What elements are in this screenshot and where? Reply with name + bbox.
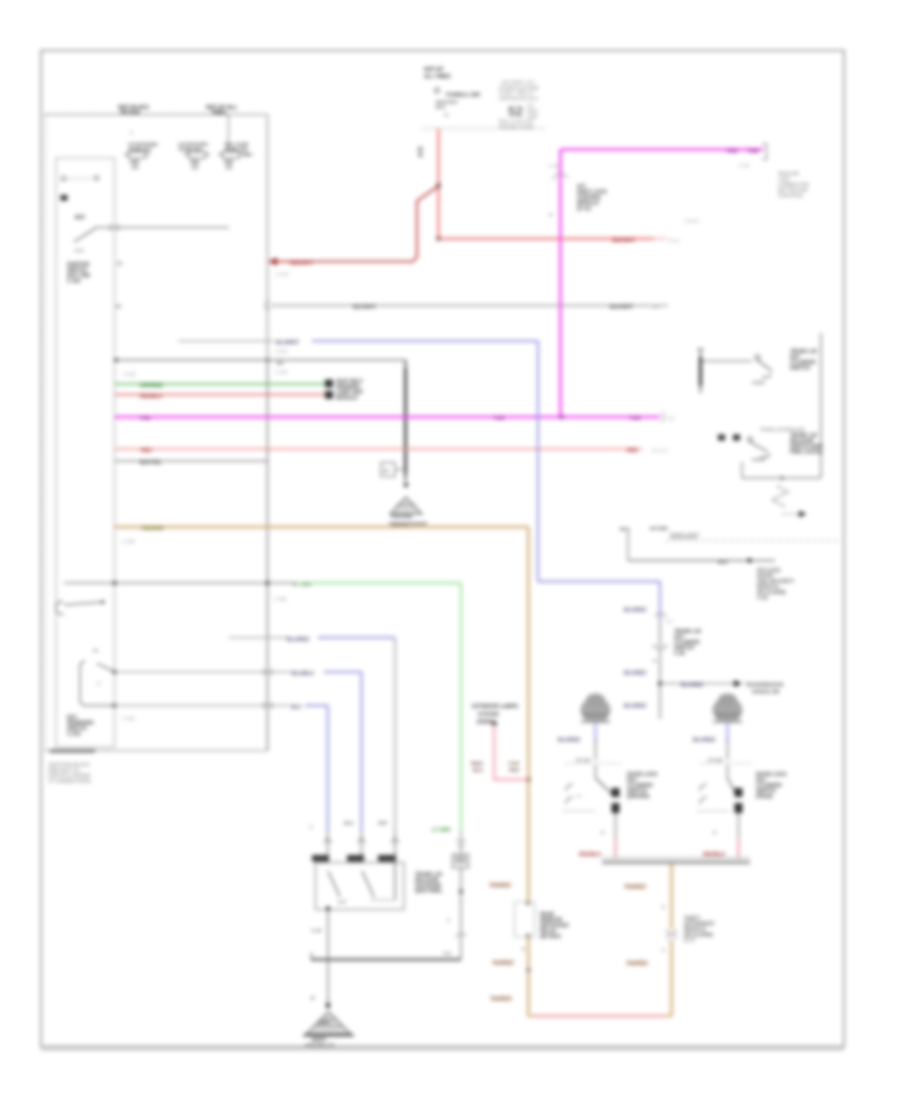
wire gray drop blue1: [394, 831, 396, 856]
svg-text:2: 2: [522, 947, 525, 952]
svg-text:BLK/YEL: BLK/YEL: [140, 460, 161, 466]
wire blue stub B: [726, 722, 728, 742]
wire tan2 vertical: [670, 864, 673, 1016]
svg-text:BLU: BLU: [291, 705, 302, 711]
dashed connector line B: [700, 763, 752, 765]
switch arm IG1: [74, 229, 95, 243]
svg-text:BLK/WHT: BLK/WHT: [610, 305, 633, 311]
svg-text:CONNECTOR: CONNECTOR: [778, 182, 809, 188]
wire ignition output: [94, 227, 229, 229]
switch2 pin squares: [718, 435, 725, 441]
svg-text:C-90: C-90: [757, 596, 768, 602]
svg-text:G303: G303: [318, 1020, 330, 1025]
wire red vertical feed: [437, 129, 439, 239]
junction block dashed left edge: [45, 115, 47, 751]
svg-text:OR RUN: OR RUN: [120, 110, 140, 116]
svg-text:TOW PKG): TOW PKG): [778, 193, 803, 199]
wire accessory feed horizontal: [115, 359, 406, 361]
svg-text:C-205: C-205: [123, 372, 136, 377]
svg-text:A: A: [97, 681, 101, 687]
svg-text:TAN/RED: TAN/RED: [489, 883, 511, 889]
junction dot y583 bus: [266, 581, 270, 585]
ground G401: [389, 497, 427, 529]
connector stub at box edge: [110, 224, 112, 231]
arrow to next: [782, 513, 799, 515]
svg-text:C-30: C-30: [739, 163, 749, 168]
svg-text:PNK: PNK: [140, 416, 151, 422]
key cylinder dome A: [581, 694, 611, 723]
wire to ground vertical: [327, 960, 329, 1005]
svg-text:PWR LOCKS): PWR LOCKS): [790, 450, 823, 456]
dashed divider line: [666, 540, 839, 542]
svg-text:GROUND (LT): GROUND (LT): [305, 1043, 335, 1048]
wire gray stub B: [727, 740, 729, 760]
svg-text:1: 1: [310, 825, 313, 830]
pin bar c: [378, 855, 396, 862]
svg-text:BLK: BLK: [718, 560, 728, 566]
svg-text:LT GRN: LT GRN: [432, 828, 451, 834]
wire dashed feed line: [422, 128, 547, 130]
svg-text:CENTER BLOCK: CENTER BLOCK: [499, 96, 538, 102]
svg-text:(W/ DEF): (W/ DEF): [540, 934, 561, 940]
svg-text:4: 4: [549, 212, 552, 218]
contact terminal circle left: [61, 176, 65, 180]
dot solenoid: [459, 890, 463, 894]
pin dot lower: [113, 704, 117, 708]
switch B arcs: [700, 784, 707, 791]
wire switch2 bottom: [742, 477, 821, 479]
svg-text:BLU/RED: BLU/RED: [558, 738, 581, 744]
svg-text:J/B: J/B: [131, 165, 139, 170]
svg-text:POWER DISTRIB: POWER DISTRIB: [499, 85, 539, 91]
svg-text:(B+): (B+): [436, 105, 446, 110]
switch A bottom dashes: [563, 810, 596, 812]
wire frame bottom thick: [41, 1049, 844, 1051]
svg-text:JUNCTION BLOCK: JUNCTION BLOCK: [48, 762, 91, 768]
key switch lower body: [80, 661, 115, 706]
wire red short y395: [115, 394, 326, 396]
svg-text:GRY: GRY: [378, 821, 388, 826]
switch2 arc: [761, 454, 770, 457]
connector arc on magenta: [553, 174, 568, 180]
switch2 arm: [750, 442, 768, 452]
svg-text:RED: RED: [509, 768, 520, 774]
svg-text:SYSTEM: SYSTEM: [478, 712, 499, 718]
switch arm box1: [328, 871, 340, 897]
wire black y461: [115, 460, 268, 462]
connector stub blue2: [263, 669, 265, 676]
wire blue y341: [312, 340, 538, 342]
wire gray x660 seg3: [659, 649, 661, 719]
svg-text:(J/B) (NOT ALL: (J/B) (NOT ALL: [48, 768, 81, 774]
junction block bottom label bar: [50, 750, 95, 752]
svg-text:LH: LH: [527, 103, 534, 109]
fuse F1: [124, 142, 159, 170]
tan corner left: [527, 1015, 534, 1017]
svg-text:(W/O PWR): (W/O PWR): [415, 889, 442, 895]
key reminder switch arc: [56, 601, 64, 614]
chevron blue3: [324, 838, 332, 843]
wire box out vertical: [327, 910, 329, 960]
svg-text:(W/ TRAILER: (W/ TRAILER: [778, 188, 808, 194]
junction dot box out: [326, 906, 330, 910]
bus bar thick: [602, 861, 750, 864]
arrow transmission: [734, 680, 742, 687]
wire right bracket vertical: [820, 333, 822, 478]
wire blue stub A: [594, 722, 596, 742]
wire blue vertical x660: [659, 582, 661, 619]
svg-text:BAT: BAT: [75, 215, 86, 221]
tick on bottom wire: [780, 476, 783, 479]
svg-text:TIMES: TIMES: [211, 110, 227, 116]
svg-text:FUSE 10A: FUSE 10A: [179, 147, 202, 153]
wire blue3 gray lead y705: [115, 705, 290, 707]
door lock switch box: [316, 863, 405, 910]
svg-text:TAN/RED: TAN/RED: [624, 885, 646, 891]
wire fuse feed 3: [228, 115, 230, 151]
svg-text:BLU/WHT: BLU/WHT: [276, 340, 299, 346]
svg-text:BATTERY JCT: BATTERY JCT: [502, 80, 535, 86]
wire blue3 vertical: [327, 706, 329, 832]
junction dot y583 box edge: [113, 581, 117, 585]
wire gray drop blue2: [361, 831, 363, 856]
wire A out gray: [615, 813, 617, 838]
svg-text:BLK/WHT: BLK/WHT: [353, 305, 376, 311]
svg-text:C-202: C-202: [67, 279, 81, 285]
wire red horizontal y449: [115, 448, 643, 450]
svg-text:TAN/: TAN/: [508, 761, 520, 767]
svg-text:BLU/RED: BLU/RED: [287, 637, 310, 643]
svg-text:GRN/RED: GRN/RED: [140, 383, 163, 389]
tan corner right: [665, 1015, 673, 1017]
junction dot red lower: [436, 237, 440, 241]
svg-text:RADIO: RADIO: [685, 219, 699, 224]
wire bright red y239: [439, 238, 656, 240]
svg-text:TAN/RED: TAN/RED: [490, 997, 512, 1003]
switch A arcs: [566, 784, 573, 791]
svg-text:4: 4: [653, 658, 656, 664]
wire blue2 vertical: [361, 672, 363, 831]
svg-text:BLU/RED: BLU/RED: [624, 671, 647, 677]
wire gray stub A: [595, 740, 597, 760]
chevron blue2: [358, 838, 366, 843]
svg-text:A2: A2: [383, 468, 389, 473]
internal pin line: [394, 862, 396, 899]
junction dot at box edge: [114, 358, 118, 362]
wire tan1 vertical: [527, 527, 530, 1016]
svg-text:52: 52: [508, 104, 523, 119]
switch1 contact circle: [755, 355, 760, 360]
wire keyless horizontal y560: [628, 560, 775, 562]
svg-text:RED: RED: [627, 448, 638, 454]
svg-text:RELAY BLOCK: RELAY BLOCK: [499, 119, 534, 125]
switch1 arm: [757, 360, 772, 371]
wire green to solenoid gray: [460, 831, 462, 854]
wire blue2 y672: [324, 671, 362, 673]
wire magenta vertical x561: [559, 150, 562, 418]
junction dot red upper: [436, 183, 440, 187]
svg-text:RED: RED: [141, 448, 152, 454]
svg-text:C-206: C-206: [274, 597, 287, 602]
wire dark red branch: [272, 186, 439, 262]
wire blue1 vertical gray: [394, 638, 396, 831]
wire B out gray: [738, 813, 740, 838]
svg-text:J/B: J/B: [225, 165, 233, 170]
svg-text:TRUNK LID RELEASE: TRUNK LID RELEASE: [760, 427, 805, 432]
svg-text:W: W: [418, 153, 423, 159]
contact dashes: [68, 178, 92, 180]
junction dot x660: [658, 681, 662, 685]
connector box at ground switch: [381, 463, 395, 477]
junction dot ground: [326, 1003, 331, 1008]
svg-text:FUSIBLE LINK: FUSIBLE LINK: [446, 93, 481, 99]
switch arc box1: [338, 900, 346, 903]
junction block bottom edge: [45, 750, 268, 752]
dashed connector line A: [565, 763, 623, 765]
svg-text:SWITCH: SWITCH: [790, 366, 810, 372]
svg-text:ENGINE COMP: ENGINE COMP: [499, 124, 535, 130]
svg-text:15A: 15A: [244, 152, 253, 157]
dot tan1 lower: [527, 968, 531, 972]
svg-text:75: 75: [117, 261, 123, 267]
connector gap tan2: [666, 929, 677, 939]
wire switch1 horizontal: [702, 360, 752, 362]
svg-text:1: 1: [130, 130, 133, 135]
wire pink bottom link: [533, 1015, 666, 1017]
svg-text:2 C-14: 2 C-14: [576, 758, 590, 763]
wire blue1 y638: [318, 637, 395, 639]
junction block right edge bus lower: [267, 360, 269, 751]
junction dot magenta: [559, 415, 563, 419]
pin green: [325, 380, 333, 388]
connector marks x660 a: [655, 613, 666, 617]
wire A to switch: [595, 765, 597, 778]
svg-text:C-77: C-77: [684, 938, 695, 944]
chevron blue1: [391, 838, 399, 843]
switch arm box2: [362, 871, 374, 897]
svg-text:BLU/RED: BLU/RED: [681, 683, 704, 689]
svg-text:C-28: C-28: [548, 164, 558, 169]
key cylinder dome B: [713, 694, 743, 723]
svg-text:DOOR LOCKS: DOOR LOCKS: [670, 532, 699, 537]
svg-text:2 C-15: 2 C-15: [708, 758, 722, 763]
svg-text:C-204: C-204: [275, 370, 288, 375]
svg-text:PNK: PNK: [748, 149, 759, 155]
svg-text:TRANSMISSION: TRANSMISSION: [745, 683, 784, 689]
svg-text:(D): (D): [668, 416, 675, 421]
svg-text:C-209: C-209: [122, 539, 135, 544]
svg-text:BLU/RED: BLU/RED: [624, 608, 647, 614]
wire blue feed gray lead y341: [178, 340, 274, 342]
svg-text:FUSE + RELAY: FUSE + RELAY: [499, 91, 534, 97]
junction dot above ground: [404, 483, 408, 487]
svg-text:TAN/RED: TAN/RED: [492, 961, 514, 967]
svg-text:CIRCUITS SHOWN: CIRCUITS SHOWN: [48, 773, 91, 779]
svg-text:BLU: BLU: [344, 821, 353, 826]
wire blue1 gray lead y638: [229, 637, 288, 639]
ground G303: [303, 1012, 354, 1048]
svg-text:ENG: ENG: [527, 109, 538, 115]
dot exterior lamps: [492, 721, 497, 726]
svg-text:MODULE: MODULE: [336, 396, 358, 402]
svg-text:(D-21) A: (D-21) A: [652, 448, 668, 453]
svg-text:ACC: ACC: [74, 248, 85, 254]
svg-text:RED/BLK: RED/BLK: [579, 852, 602, 858]
switch1 arc: [762, 374, 771, 377]
connector arc solenoid: [456, 934, 466, 938]
junction dot on tan1: [526, 777, 531, 782]
internal bottom dash: [371, 899, 397, 901]
wire keyless drop: [627, 531, 629, 561]
svg-text:(W): (W): [652, 305, 660, 310]
svg-text:LT GRN: LT GRN: [293, 582, 312, 588]
svg-text:C-204: C-204: [275, 349, 288, 354]
svg-text:B1: B1: [444, 113, 450, 118]
svg-text:RED/BLK: RED/BLK: [703, 852, 726, 858]
switch A contact bar: [612, 788, 620, 797]
switch A arm: [596, 778, 613, 794]
connector marks green: [456, 840, 466, 842]
key switch lower arm: [97, 664, 114, 672]
svg-text:W/ PWR: W/ PWR: [650, 526, 668, 531]
pin bar a: [312, 855, 329, 862]
svg-text:5T: 5T: [116, 304, 122, 310]
wire light green vertical: [460, 583, 462, 831]
svg-text:J/B: J/B: [191, 165, 199, 170]
svg-text:C-10: C-10: [311, 928, 322, 933]
wire switch2 drop: [741, 462, 743, 478]
ground bus thick: [311, 958, 461, 960]
trunk release solenoid body: [453, 854, 469, 868]
svg-text:B: B: [311, 996, 315, 1001]
svg-text:ALL TIMES: ALL TIMES: [424, 74, 451, 80]
wire blue3 y705: [305, 705, 328, 707]
wire gray drop blue3: [327, 831, 329, 856]
connector stub blue3: [263, 702, 265, 709]
svg-text:2A: 2A: [277, 361, 284, 367]
connector bracket magenta end: [762, 144, 767, 160]
svg-text:(D-11): (D-11): [577, 206, 591, 212]
key reminder switch arm: [64, 602, 102, 605]
wire gray y305: [270, 305, 668, 307]
ignition switch box: [56, 158, 115, 747]
svg-text:(PASS): (PASS): [756, 794, 773, 800]
svg-text:RED/WHT: RED/WHT: [612, 238, 635, 244]
svg-text:PNK: PNK: [727, 149, 738, 155]
svg-text:BLK: BLK: [620, 527, 630, 533]
svg-text:TAN/RED: TAN/RED: [626, 961, 648, 967]
connector marks x660 b: [652, 645, 668, 647]
wire light green y583: [312, 582, 461, 584]
wire thick vertical to ground: [405, 360, 407, 481]
switch2 contact circle: [748, 437, 753, 442]
wire gray x660 seg2: [659, 618, 661, 644]
pin block: [61, 195, 68, 201]
wire tan horizontal y527: [115, 526, 529, 529]
svg-text:GROUND: GROUND: [391, 514, 413, 520]
junction block right edge bus upper: [267, 115, 269, 361]
svg-text:1: 1: [662, 948, 665, 953]
fuse F3: [218, 142, 253, 170]
svg-text:BLU/BLK: BLU/BLK: [292, 671, 314, 677]
wire blue vertical x538: [537, 341, 539, 582]
wire blue2 gray lead y672: [115, 671, 293, 673]
wire magenta horizontal y150: [561, 148, 764, 151]
svg-text:BLU/RED: BLU/RED: [693, 738, 716, 744]
wire magenta horizontal y417: [115, 416, 661, 419]
wire B out pink: [738, 838, 740, 858]
wire transmission branch: [660, 683, 735, 685]
connector end magenta: [661, 412, 664, 422]
svg-text:AT CONNECTORS): AT CONNECTORS): [48, 779, 91, 785]
svg-text:(D-2): (D-2): [669, 238, 680, 243]
svg-text:BLK: BLK: [473, 768, 484, 774]
pin red: [325, 391, 333, 399]
junction block J/B dashed top edge: [45, 114, 268, 116]
svg-text:4: 4: [713, 830, 716, 836]
svg-text:TAN/GRN: TAN/GRN: [141, 526, 164, 532]
pin dot upper: [113, 670, 117, 674]
svg-text:4: 4: [601, 830, 604, 836]
svg-text:EXTERIOR LAMPS: EXTERIOR LAMPS: [472, 704, 519, 710]
svg-text:HOT AT: HOT AT: [424, 67, 444, 73]
switch B bottom dashes: [698, 810, 728, 812]
defogger relay box: [515, 902, 535, 937]
resistor zigzag: [772, 486, 788, 507]
svg-text:C-210: C-210: [276, 272, 289, 277]
red connector dash: [653, 238, 667, 240]
switch B contact bar: [735, 788, 743, 797]
trunk key cylinder switch pin bar: [700, 349, 702, 393]
label power distribution block: [499, 80, 539, 130]
svg-text:C-208: C-208: [122, 716, 135, 721]
wire A out pink: [615, 838, 617, 858]
fuse F2: [178, 142, 210, 170]
wire blue horizontal y581: [538, 581, 660, 583]
svg-text:PNK: PNK: [630, 416, 641, 422]
pin bar b: [347, 855, 364, 862]
wire solenoid down: [460, 868, 462, 960]
svg-text:RED/WHT: RED/WHT: [290, 261, 313, 267]
wire green short y384: [115, 383, 326, 385]
svg-text:PNK: PNK: [494, 416, 505, 422]
switch B arm: [728, 778, 737, 794]
svg-text:TRAILER: TRAILER: [778, 171, 799, 177]
wire gray-green y583 gray part: [64, 582, 296, 584]
bus bar thin: [602, 857, 750, 859]
svg-text:1: 1: [447, 918, 450, 923]
svg-text:BLU/RED: BLU/RED: [624, 704, 647, 710]
svg-text:3: 3: [662, 905, 665, 910]
junction dot at bus: [266, 358, 270, 362]
svg-text:(DRIVER): (DRIVER): [627, 794, 650, 800]
contact terminal circle right: [94, 176, 98, 180]
svg-text:RED/BLU: RED/BLU: [140, 394, 163, 400]
svg-text:LOCK: LOCK: [752, 380, 765, 385]
svg-text:C-203: C-203: [67, 732, 81, 738]
wire B to switch: [727, 765, 729, 778]
svg-text:C-2: C-2: [666, 619, 674, 624]
svg-text:C-9: C-9: [443, 951, 451, 956]
wire red exterior branch: [494, 724, 528, 780]
svg-text:5A: 5A: [93, 648, 100, 654]
svg-text:RED/: RED/: [471, 761, 483, 767]
connector gray start: [265, 301, 270, 311]
ground bus left tick: [311, 953, 313, 960]
svg-text:LOCK: LOCK: [752, 457, 765, 462]
svg-text:FUSE 15A: FUSE 15A: [129, 147, 152, 153]
svg-text:C-45: C-45: [674, 651, 685, 657]
